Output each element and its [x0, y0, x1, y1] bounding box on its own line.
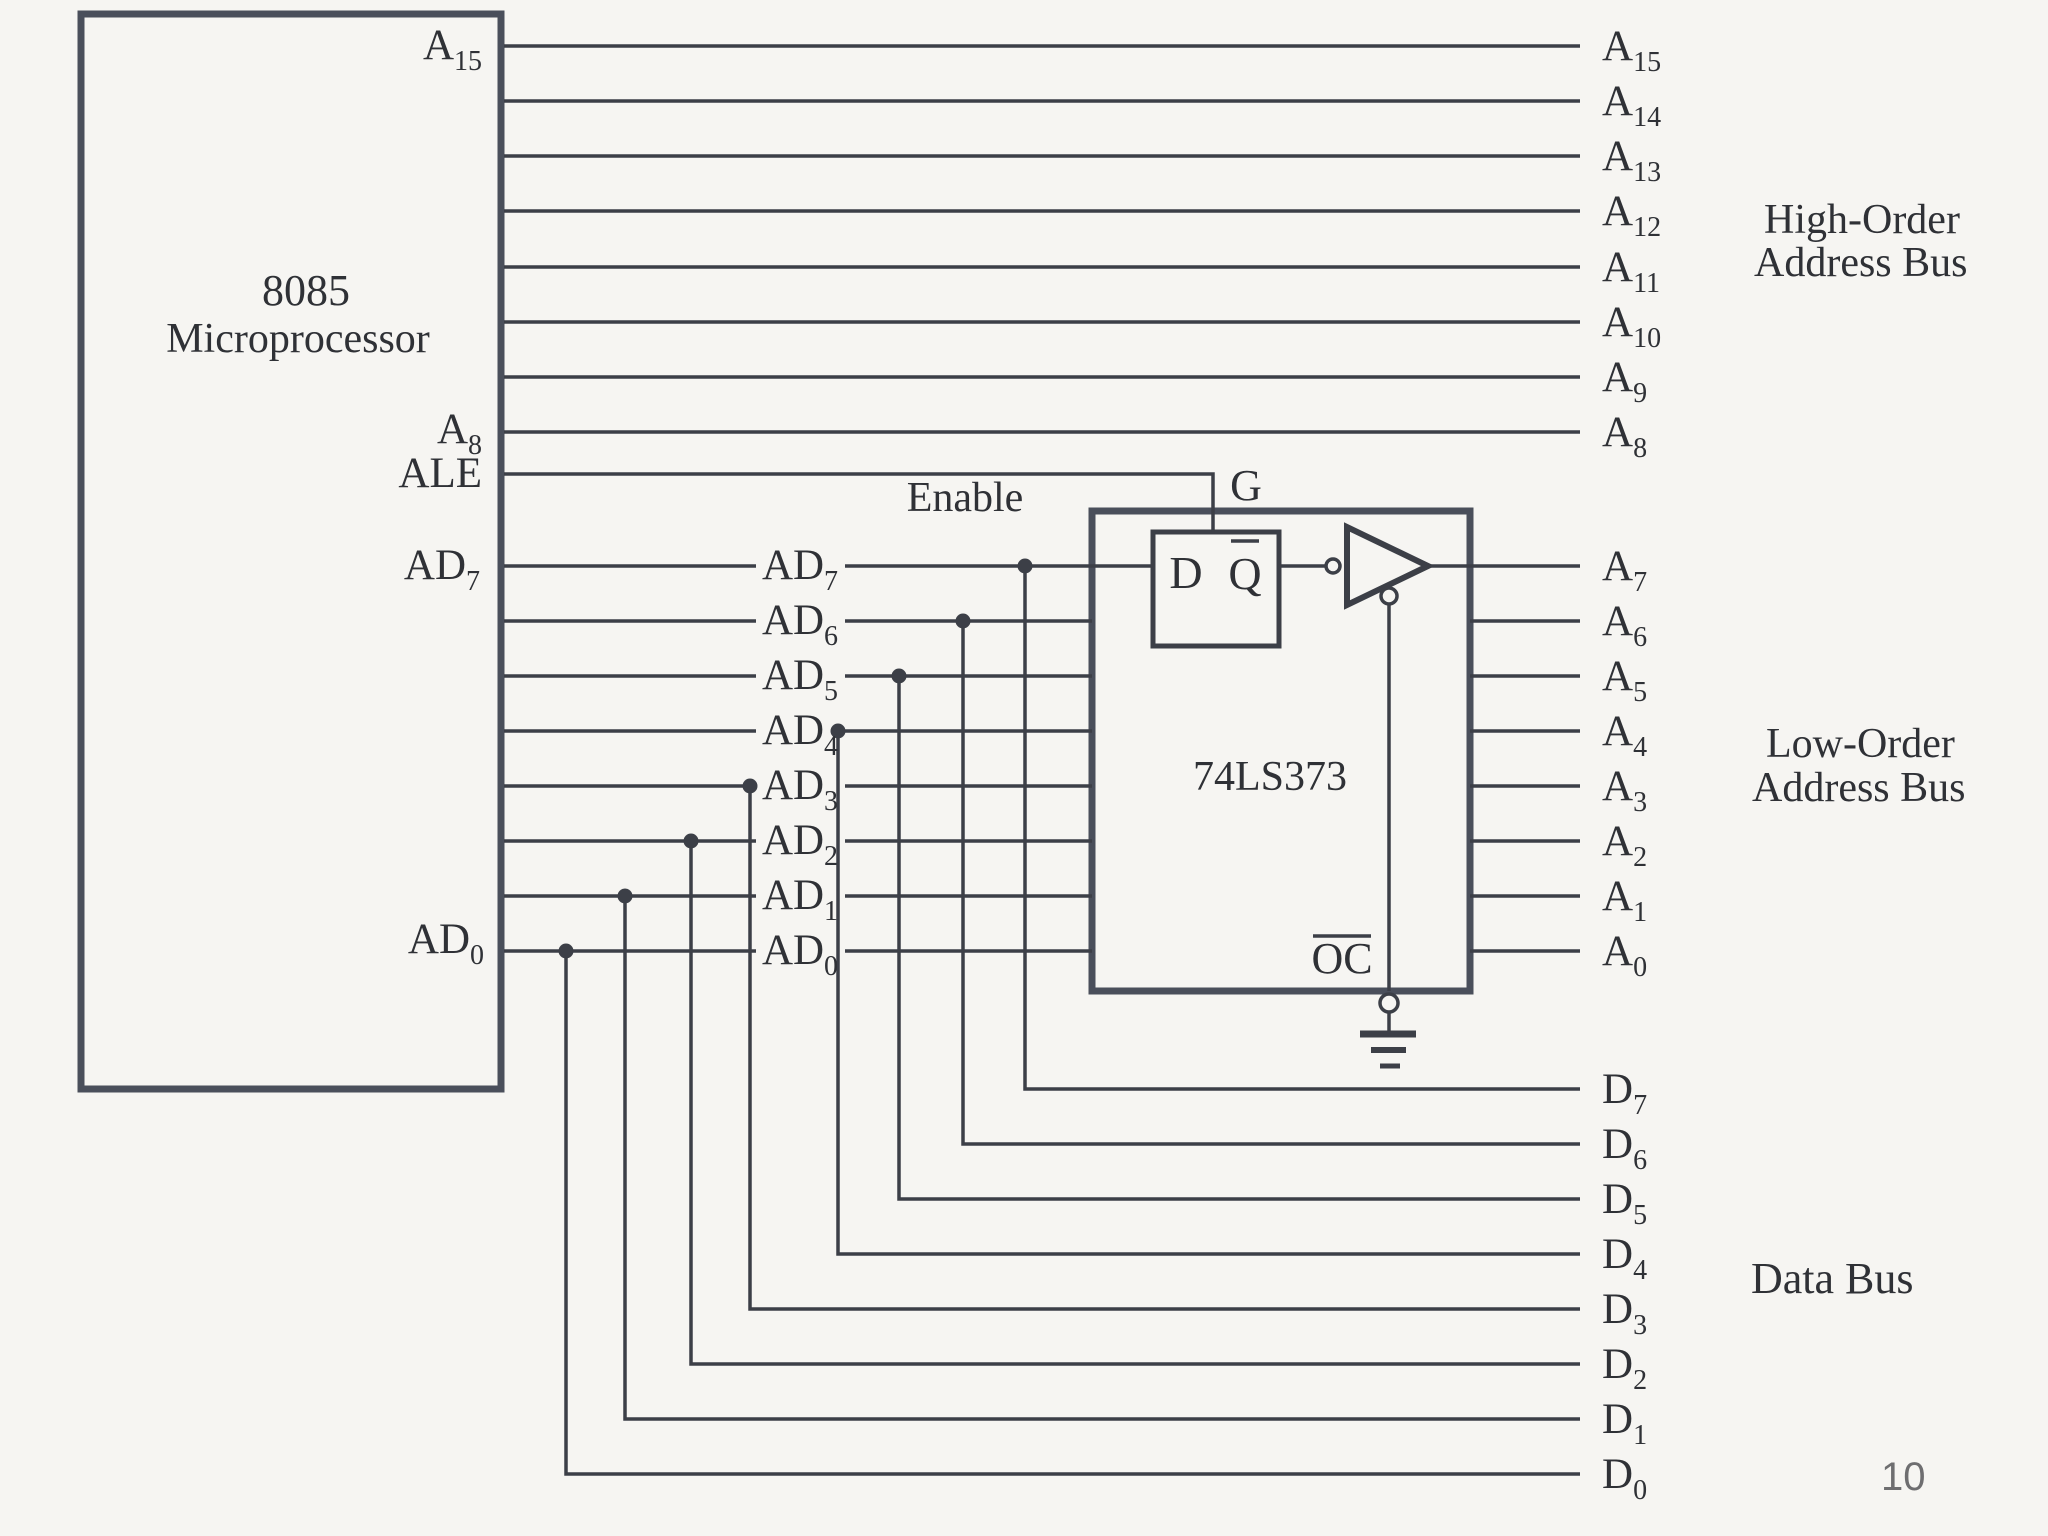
svg-text:G: G — [1230, 461, 1262, 510]
svg-text:D: D — [1169, 547, 1202, 598]
svg-text:Q: Q — [1228, 548, 1261, 599]
svg-text:OC: OC — [1311, 934, 1372, 983]
svg-text:ALE: ALE — [398, 450, 482, 497]
svg-text:Address Bus: Address Bus — [1754, 240, 1968, 286]
svg-text:High-Order: High-Order — [1764, 197, 1960, 243]
svg-text:Microprocessor: Microprocessor — [166, 316, 430, 362]
svg-text:Low-Order: Low-Order — [1766, 721, 1955, 767]
svg-text:Address Bus: Address Bus — [1752, 765, 1966, 811]
svg-text:74LS373: 74LS373 — [1193, 754, 1347, 800]
svg-text:10: 10 — [1881, 1455, 1926, 1499]
svg-text:Data Bus: Data Bus — [1751, 1254, 1914, 1303]
svg-text:8085: 8085 — [262, 266, 350, 315]
svg-text:Enable: Enable — [907, 475, 1024, 521]
